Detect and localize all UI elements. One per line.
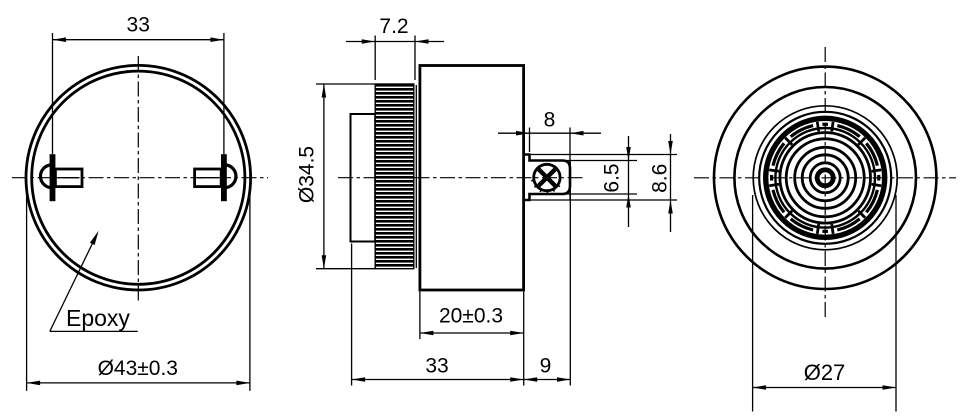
svg-text:6.5: 6.5 xyxy=(601,163,624,192)
screw head on terminal xyxy=(534,164,560,190)
screw phillips cross xyxy=(539,169,556,186)
node main body case xyxy=(420,66,524,291)
dimension 20+-0.3 body depth xyxy=(419,292,421,340)
svg-text:33: 33 xyxy=(425,355,448,378)
dimension 33 pin spacing xyxy=(52,33,54,154)
node ridge ring r23 xyxy=(802,155,848,201)
node outer case circle D43 xyxy=(26,65,251,290)
svg-text:20±0.3: 20±0.3 xyxy=(439,305,503,328)
dimension 7.2 knurl width xyxy=(374,36,376,81)
node knurled ring D34.5 xyxy=(375,84,414,269)
wire centerline vertical left view xyxy=(137,56,139,301)
svg-text:7.2: 7.2 xyxy=(379,15,408,38)
dimension 33 overall depth xyxy=(351,244,353,386)
node tick ring inner xyxy=(775,128,875,228)
dimension 8.6 step height xyxy=(531,154,677,156)
node rear flange xyxy=(351,114,376,242)
svg-text:9: 9 xyxy=(540,355,552,378)
node terminal block side xyxy=(524,155,570,201)
wire centerline vertical right view xyxy=(824,47,826,317)
dimension 9 terminal depth xyxy=(569,160,571,386)
node ridge ring r39 xyxy=(786,139,864,217)
svg-text:Ø27: Ø27 xyxy=(804,360,846,385)
node front bezel circle xyxy=(734,87,916,269)
dimension 6.5 terminal height xyxy=(566,160,637,162)
node ridge ring r30 xyxy=(795,147,856,208)
node rim circle xyxy=(759,112,891,244)
node ridge ring r15 xyxy=(810,163,840,193)
dimension 8 terminal length xyxy=(529,128,531,153)
leader Epoxy xyxy=(50,234,97,332)
svg-text:Epoxy: Epoxy xyxy=(66,305,130,331)
node center hole xyxy=(817,170,833,186)
node case outer circle xyxy=(714,67,936,289)
pin terminal left xyxy=(50,154,56,201)
svg-text:8.6: 8.6 xyxy=(649,164,672,193)
node inner case circle xyxy=(32,71,245,284)
node ridge ring r45 xyxy=(780,133,871,224)
wire centerline horizontal middle view xyxy=(338,177,583,179)
wire centerline horizontal left view xyxy=(12,177,268,179)
node thick ridge ring xyxy=(766,118,885,237)
dimension D34.5 knurl diameter xyxy=(316,83,375,85)
tick marks ring xyxy=(769,122,881,234)
svg-text:8: 8 xyxy=(544,109,556,132)
dimension D27 xyxy=(752,195,754,412)
dimension D43 outer diameter xyxy=(26,186,28,391)
svg-text:Ø34.5: Ø34.5 xyxy=(296,146,319,203)
pin terminal right xyxy=(221,154,227,201)
svg-text:Ø43±0.3: Ø43±0.3 xyxy=(98,357,178,380)
node tick ring outer segmented xyxy=(772,124,879,231)
wire centerline horizontal right view xyxy=(694,177,956,179)
svg-text:33: 33 xyxy=(127,14,150,37)
node grille circle D27 xyxy=(753,106,897,250)
